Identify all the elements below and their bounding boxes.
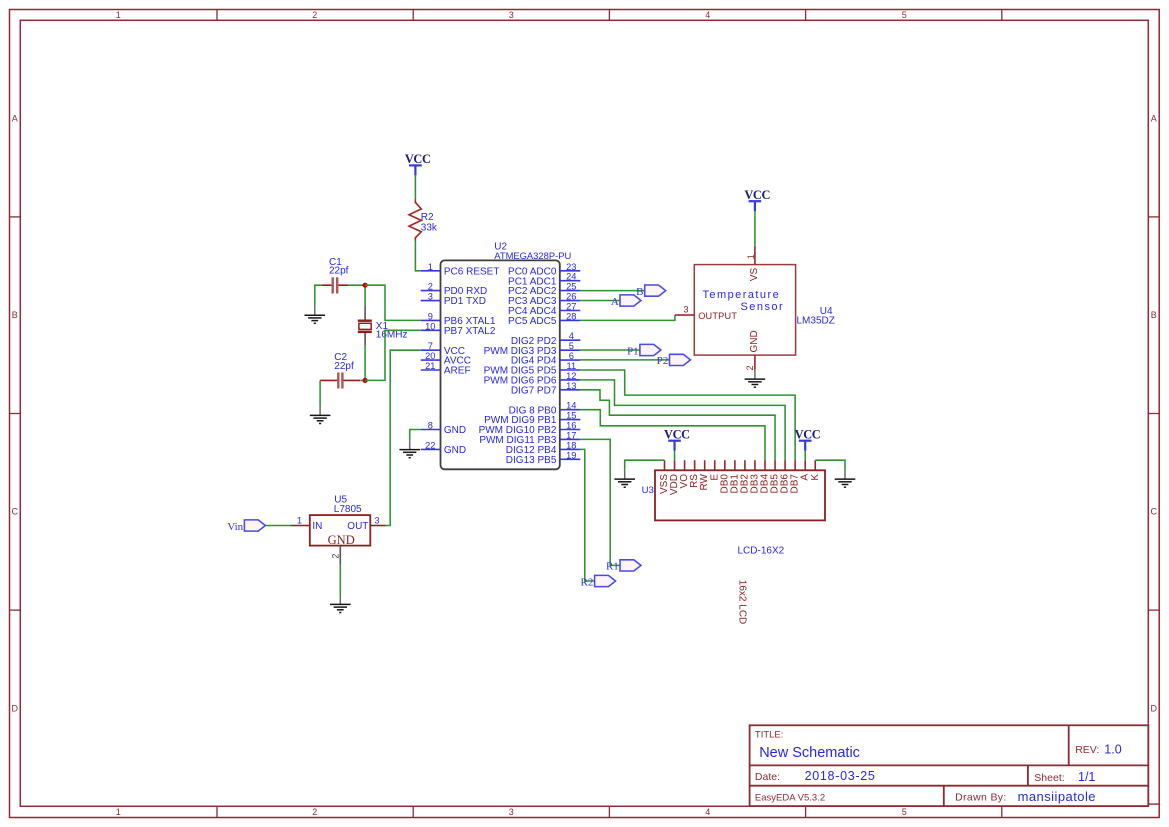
- svg-text:13: 13: [566, 381, 576, 391]
- svg-text:P1: P1: [627, 345, 639, 357]
- svg-text:1: 1: [428, 262, 433, 272]
- svg-text:GND: GND: [444, 445, 466, 456]
- svg-text:3: 3: [509, 807, 514, 817]
- svg-text:L7805: L7805: [334, 504, 362, 515]
- svg-text:Temperature: Temperature: [702, 289, 780, 301]
- svg-text:6: 6: [569, 351, 574, 361]
- svg-text:2: 2: [745, 365, 755, 370]
- svg-text:1: 1: [297, 515, 302, 525]
- svg-text:2: 2: [428, 282, 433, 292]
- svg-text:A: A: [1151, 114, 1157, 124]
- svg-text:ATMEGA328P-PU: ATMEGA328P-PU: [494, 250, 571, 261]
- svg-text:5: 5: [902, 807, 907, 817]
- svg-text:4: 4: [569, 331, 574, 341]
- svg-text:B: B: [636, 286, 643, 298]
- svg-text:PD1 TXD: PD1 TXD: [444, 296, 486, 307]
- svg-text:2: 2: [312, 10, 317, 20]
- svg-text:10: 10: [425, 321, 435, 331]
- svg-text:26: 26: [566, 292, 576, 302]
- svg-text:PC5 ADC5: PC5 ADC5: [508, 316, 557, 327]
- svg-text:D: D: [1150, 703, 1157, 713]
- svg-text:23: 23: [566, 262, 576, 272]
- svg-text:AREF: AREF: [444, 366, 471, 377]
- svg-text:2: 2: [312, 807, 317, 817]
- svg-text:Vin: Vin: [227, 521, 243, 533]
- svg-text:K: K: [810, 474, 821, 481]
- svg-text:GND: GND: [444, 425, 466, 436]
- svg-text:4: 4: [705, 10, 710, 20]
- svg-text:4: 4: [705, 807, 710, 817]
- svg-text:GND: GND: [328, 533, 355, 547]
- svg-text:8: 8: [428, 421, 433, 431]
- svg-text:VCC: VCC: [405, 152, 431, 166]
- svg-text:R1: R1: [606, 561, 619, 573]
- svg-text:33k: 33k: [421, 223, 438, 234]
- svg-text:18: 18: [566, 440, 576, 450]
- svg-text:5: 5: [569, 341, 574, 351]
- svg-text:Sheet:: Sheet:: [1034, 772, 1064, 784]
- svg-text:20: 20: [425, 351, 435, 361]
- svg-text:P2: P2: [657, 355, 669, 367]
- svg-text:22pf: 22pf: [334, 361, 354, 372]
- svg-text:IN: IN: [312, 521, 322, 532]
- svg-text:9: 9: [428, 311, 433, 321]
- svg-text:Date:: Date:: [755, 771, 780, 783]
- svg-text:1: 1: [746, 254, 756, 259]
- svg-text:21: 21: [425, 361, 435, 371]
- svg-text:15: 15: [566, 411, 576, 421]
- svg-text:EasyEDA V5.3.2: EasyEDA V5.3.2: [755, 793, 825, 804]
- svg-text:VCC: VCC: [744, 188, 770, 202]
- svg-text:11: 11: [566, 361, 576, 371]
- svg-text:5: 5: [902, 10, 907, 20]
- svg-text:C: C: [12, 507, 19, 517]
- svg-text:C: C: [1150, 507, 1157, 517]
- svg-text:LCD-16X2: LCD-16X2: [738, 545, 785, 556]
- svg-text:24: 24: [566, 272, 576, 282]
- svg-text:1: 1: [116, 10, 121, 20]
- svg-text:3: 3: [683, 305, 688, 315]
- svg-text:27: 27: [566, 302, 576, 312]
- svg-text:Sensor: Sensor: [741, 301, 785, 313]
- svg-text:22pf: 22pf: [329, 266, 349, 277]
- svg-text:19: 19: [566, 450, 576, 460]
- svg-text:7: 7: [428, 341, 433, 351]
- svg-text:16: 16: [566, 421, 576, 431]
- svg-text:U3: U3: [642, 485, 654, 496]
- svg-text:DIG13 PB5: DIG13 PB5: [506, 455, 557, 466]
- svg-text:12: 12: [566, 371, 576, 381]
- svg-text:14: 14: [566, 401, 576, 411]
- svg-text:3: 3: [428, 292, 433, 302]
- svg-text:3: 3: [509, 10, 514, 20]
- svg-text:Drawn By:: Drawn By:: [955, 792, 1007, 804]
- svg-text:New Schematic: New Schematic: [759, 745, 860, 761]
- svg-text:25: 25: [566, 282, 576, 292]
- svg-text:mansiipatole: mansiipatole: [1018, 789, 1096, 804]
- svg-text:1/1: 1/1: [1078, 770, 1095, 784]
- svg-text:22: 22: [425, 440, 435, 450]
- svg-text:DIG7 PD7: DIG7 PD7: [511, 385, 557, 396]
- svg-text:A: A: [611, 296, 619, 308]
- svg-text:3: 3: [374, 515, 379, 525]
- svg-text:B: B: [1151, 310, 1157, 320]
- svg-text:2018-03-25: 2018-03-25: [805, 769, 876, 783]
- svg-text:1: 1: [116, 807, 121, 817]
- svg-text:REV:: REV:: [1075, 744, 1099, 756]
- svg-text:OUTPUT: OUTPUT: [698, 311, 737, 321]
- svg-text:OUT: OUT: [347, 521, 368, 532]
- svg-text:16x2 LCD: 16x2 LCD: [737, 580, 748, 624]
- svg-text:R2: R2: [421, 212, 434, 223]
- svg-text:A: A: [12, 114, 18, 124]
- svg-text:VCC: VCC: [664, 427, 690, 441]
- svg-text:GND: GND: [749, 330, 760, 352]
- svg-text:28: 28: [566, 311, 576, 321]
- svg-text:TITLE:: TITLE:: [755, 730, 784, 741]
- svg-text:R2: R2: [581, 576, 594, 588]
- svg-text:2: 2: [330, 554, 340, 559]
- svg-text:VCC: VCC: [795, 427, 821, 441]
- svg-text:PC6 RESET: PC6 RESET: [444, 266, 500, 277]
- svg-text:1.0: 1.0: [1104, 742, 1121, 756]
- svg-text:PB7 XTAL2: PB7 XTAL2: [444, 326, 496, 337]
- svg-text:LM35DZ: LM35DZ: [797, 315, 835, 326]
- svg-text:B: B: [12, 310, 18, 320]
- svg-text:D: D: [12, 703, 19, 713]
- svg-text:17: 17: [566, 430, 576, 440]
- svg-text:VS: VS: [749, 267, 760, 281]
